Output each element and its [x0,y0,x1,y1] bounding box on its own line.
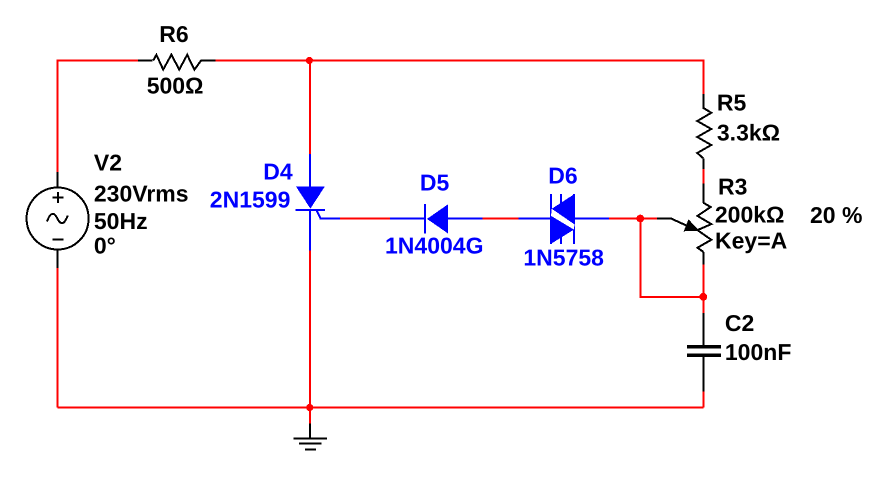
wire trigger segment 3 [609,218,657,220]
junction trigger-wiper [636,215,644,223]
svg-text:1N5758: 1N5758 [523,244,604,270]
svg-text:R6: R6 [159,21,188,47]
ground [294,424,327,450]
svg-text:D4: D4 [263,159,293,185]
svg-text:V2: V2 [94,150,122,176]
diode D5 [390,204,482,233]
svg-text:200kΩ: 200kΩ [715,202,785,228]
junction ground [306,404,313,411]
wire trigger segment 2 [482,218,518,220]
wire C2 bottom [703,392,705,408]
svg-text:D5: D5 [420,170,450,196]
svg-text:3.3kΩ: 3.3kΩ [717,120,780,146]
SCR D4 [295,154,340,251]
svg-text:2N1599: 2N1599 [210,186,291,212]
wire left lower [57,268,59,408]
diac D6 [519,194,609,244]
svg-text:20 %: 20 % [810,202,862,228]
wire wiper branch [640,219,703,297]
wire R5 to R3 [702,169,704,184]
svg-text:500Ω: 500Ω [147,73,204,99]
resistor R6 [138,55,216,70]
potentiometer R3 wiper arrow [657,219,700,232]
junction pot bottom [699,293,707,301]
svg-text:1N4004G: 1N4004G [385,233,483,259]
wire ground stub [309,408,311,424]
potentiometer R3 [698,184,712,265]
svg-text:D6: D6 [548,162,577,188]
svg-text:230Vrms: 230Vrms [94,180,189,206]
wire pot bottom to C2 [702,264,704,313]
svg-text:50Hz: 50Hz [94,208,148,234]
wire mid vertical lower [309,251,311,408]
svg-text:100nF: 100nF [725,339,791,365]
junction top [306,57,313,64]
source V2 [27,172,89,268]
wire top left [58,61,138,173]
wire mid vertical upper [309,61,311,155]
svg-text:R3: R3 [718,174,747,200]
svg-text:Key=A: Key=A [715,227,787,253]
capacitor C2 [687,313,721,392]
resistor R5 [697,94,711,169]
wire top right [216,61,704,94]
svg-text:C2: C2 [725,310,754,336]
wire trigger segment 1 [340,218,390,220]
wire bottom [58,407,704,409]
svg-text:0°: 0° [94,233,116,259]
svg-text:R5: R5 [717,89,747,115]
